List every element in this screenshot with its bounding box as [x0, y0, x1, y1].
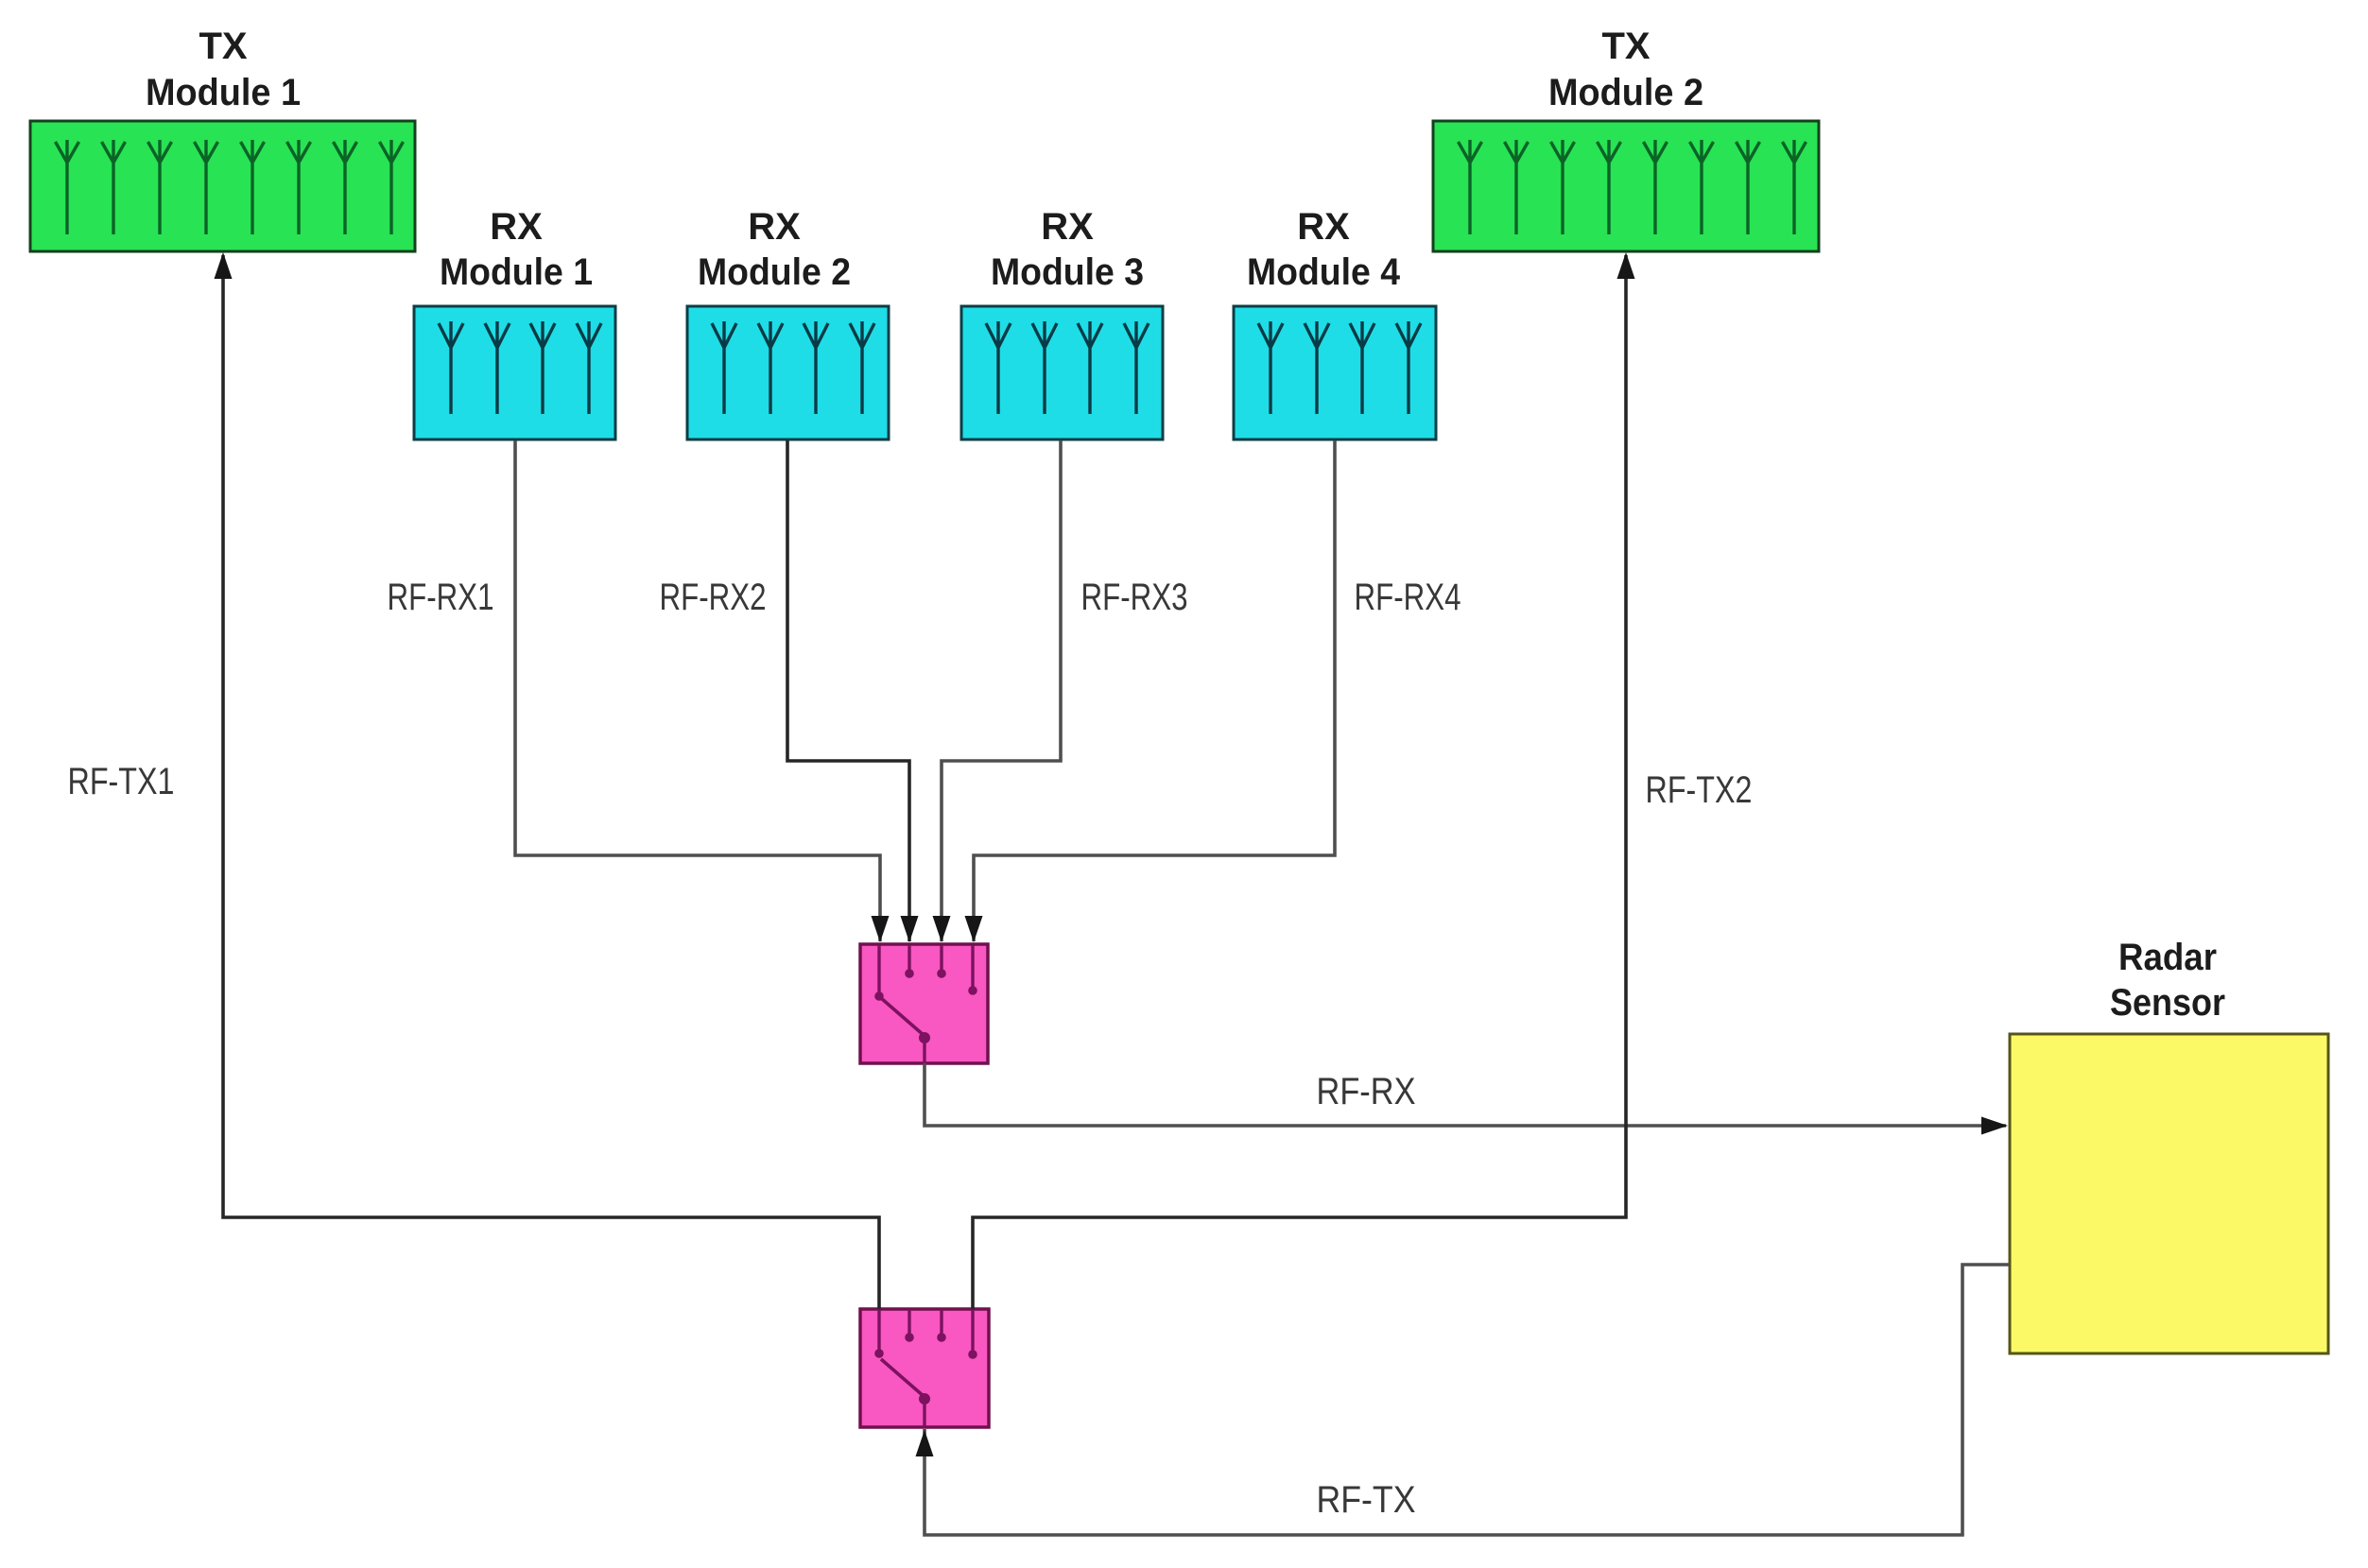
label RF-TX1	[68, 761, 175, 802]
label RF-RX3	[1081, 577, 1188, 618]
svg-text:RF-TX: RF-TX	[1317, 1479, 1416, 1521]
title: TX Module 2 line 1	[1601, 26, 1650, 67]
RX antenna module 4 (4-element array)	[1234, 306, 1436, 439]
radar sensor box	[2010, 1034, 2328, 1353]
title: RX Module 4 line 1	[1297, 206, 1350, 248]
title: TX Module 2 line 2	[1548, 72, 1703, 113]
RX antenna module 2 (4-element array)	[687, 306, 889, 439]
svg-text:RX: RX	[1041, 206, 1094, 248]
svg-text:RF-RX1: RF-RX1	[388, 577, 494, 618]
arrowhead RF-RX3 into switch U1 pin 3	[933, 916, 951, 942]
title: TX Module 1 line 1	[199, 26, 247, 67]
arrowhead into TX module 1	[215, 252, 233, 279]
wire RF-TX2 (TX switch to TX module 2)	[973, 255, 1626, 1309]
TX antenna module 1 (8-element array)	[30, 121, 415, 251]
RX antenna module 3 (4-element array)	[961, 306, 1163, 439]
title: Radar Sensor line 1	[2118, 937, 2217, 978]
svg-text:Module 2: Module 2	[1548, 72, 1703, 113]
label RF-RX2	[660, 577, 767, 618]
title: RX Module 3 line 1	[1041, 206, 1094, 248]
svg-text:RF-TX2: RF-TX2	[1646, 769, 1753, 811]
switch U2 (SP4T transmit switch)	[860, 1309, 989, 1427]
svg-text:RF-RX: RF-RX	[1317, 1071, 1416, 1112]
svg-text:Module 1: Module 1	[146, 72, 301, 113]
wire RF-RX2 (RX module 2 to switch U1 pin 2)	[787, 440, 909, 941]
svg-text:Module 3: Module 3	[991, 251, 1144, 293]
switch U1 (SP4T receive switch)	[860, 944, 988, 1063]
arrowhead RF-TX into switch U2 pole	[916, 1430, 934, 1456]
label RF-RX	[1317, 1071, 1416, 1112]
wire RF-RX3 (RX module 3 to switch U1 pin 3)	[942, 440, 1061, 941]
svg-text:RF-RX3: RF-RX3	[1081, 577, 1188, 618]
svg-text:Module 1: Module 1	[440, 251, 593, 293]
label RF-TX	[1317, 1479, 1416, 1521]
title: RX Module 3 line 2	[991, 251, 1144, 293]
svg-text:TX: TX	[199, 26, 247, 67]
svg-text:TX: TX	[1601, 26, 1650, 67]
wire RF-RX4 (RX module 4 to switch U1 pin 4)	[974, 440, 1335, 941]
wire RF-TX1 (TX switch to TX module 1)	[223, 255, 879, 1309]
title: RX Module 2 line 1	[748, 206, 801, 248]
svg-text:Radar: Radar	[2118, 937, 2217, 978]
title: TX Module 1 line 2	[146, 72, 301, 113]
title: RX Module 1 line 2	[440, 251, 593, 293]
arrowhead RF-RX1 into switch U1 pin 1	[872, 916, 890, 942]
svg-text:RX: RX	[490, 206, 543, 248]
wire RF-TX (radar sensor to TX switch pole)	[925, 1265, 2009, 1535]
label RF-TX2	[1646, 769, 1753, 811]
arrowhead RF-RX2 into switch U1 pin 2	[901, 916, 919, 942]
svg-text:Sensor: Sensor	[2110, 982, 2225, 1024]
svg-text:RX: RX	[748, 206, 801, 248]
svg-text:RF-RX2: RF-RX2	[660, 577, 767, 618]
title: RX Module 1 line 1	[490, 206, 543, 248]
arrowhead RF-RX into radar sensor	[1981, 1117, 2008, 1135]
label RF-RX4	[1355, 577, 1461, 618]
TX antenna module 2 (8-element array)	[1433, 121, 1819, 251]
svg-text:Module 4: Module 4	[1247, 251, 1401, 293]
title: RX Module 4 line 2	[1247, 251, 1401, 293]
svg-text:RF-TX1: RF-TX1	[68, 761, 175, 802]
svg-text:RX: RX	[1297, 206, 1350, 248]
arrowhead into TX module 2	[1617, 252, 1635, 279]
svg-text:RF-RX4: RF-RX4	[1355, 577, 1461, 618]
title: RX Module 2 line 2	[698, 251, 851, 293]
RX antenna module 1 (4-element array)	[414, 306, 615, 439]
label RF-RX1	[388, 577, 494, 618]
wire RF-RX1 (RX module 1 to switch U1 pin 1)	[515, 440, 880, 941]
wire RF-RX (switch U1 pole to radar sensor)	[925, 1063, 2006, 1126]
title: Radar Sensor line 2	[2110, 982, 2225, 1024]
arrowhead RF-RX4 into switch U1 pin 4	[965, 916, 983, 942]
svg-text:Module 2: Module 2	[698, 251, 851, 293]
